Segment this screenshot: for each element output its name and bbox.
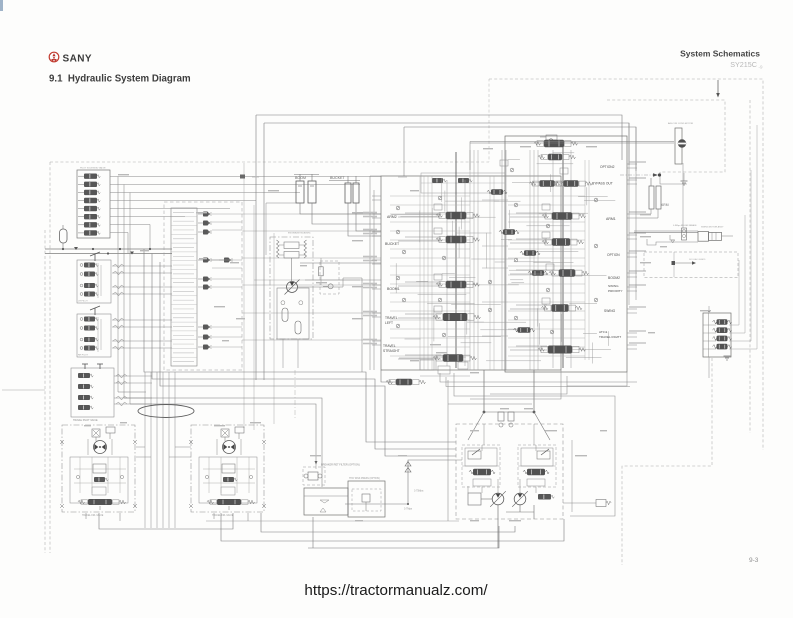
TRAVEL STRAIGHT spool [436,355,443,361]
ARM2 spool [439,213,446,219]
svg-text:9-3: 9-3 [749,557,759,564]
left dashed boundary [50,161,112,163]
svg-text:BUCKET: BUCKET [330,176,345,180]
right routing verticals [628,123,630,305]
port stubs left side [372,195,381,197]
left vertical routing bundle [117,177,119,393]
svg-text:SY215C: SY215C [730,60,757,69]
travel motor right [191,425,264,512]
svg-text:ENGINE(MITSUBISHI): ENGINE(MITSUBISHI) [288,233,311,235]
extra pilot hose [305,279,381,281]
solenoid valve SV7 [84,222,97,227]
solenoid block output wires [110,176,381,178]
svg-text:SWING: SWING [604,309,616,313]
svg-text:TRAVEL: TRAVEL [385,316,398,320]
spool column feed lines [446,180,448,366]
solenoid valve SV2 [84,182,97,187]
travel pilot valve group [71,368,114,417]
left joystick wires [112,265,172,267]
coupler on long pilot line [240,175,245,179]
OPTION2 spool lower [541,155,548,160]
main pump assembly (dashed enclosure) [456,424,563,519]
pump regulator right (dashed) [518,445,556,487]
pump case line right [571,440,573,512]
outer dashed boundary top [489,79,763,450]
quick couplers [203,212,208,217]
remote control line manifold (dashed enclosure) [164,202,242,370]
tiny label smudges [196,212,207,213]
svg-text:BOOM2: BOOM2 [608,276,620,280]
port micro-labels right of rows [629,161,646,163]
swing park brake dashed box [644,252,738,278]
solenoid valve SV6 [84,214,97,219]
solenoid valve SV4 [84,198,97,203]
auxiliary small spools [499,230,503,234]
fan motor circle [678,140,686,148]
dashed boundary right staircase [622,358,712,565]
svg-text:SWING: SWING [608,284,619,288]
left joystick pilot valve group [77,260,111,303]
anti-drift stack top tee [708,306,710,313]
center swivel joint ellipse [138,405,194,418]
nested corner routing at block bottom right [470,370,561,399]
svg-text:TRAVEL FRL VALVE: TRAVEL FRL VALVE [212,514,234,517]
quick coupler extra [224,258,229,263]
BOOM1 spool [439,282,446,288]
page corner mark [0,0,3,11]
main pump P1 [492,493,504,505]
swing drop from filter tee [682,163,684,228]
svg-text:AT0 &: AT0 & [599,330,608,334]
svg-text:0.9Mpa RELIEF BRAKE: 0.9Mpa RELIEF BRAKE [673,224,697,227]
BYPASS CUT valves [533,181,540,186]
swing tank bracket [670,235,675,240]
breaker return filter (dashed box) [303,467,325,485]
external pilot relief valve right of pump [596,500,606,507]
pump regulator left (dashed) [462,445,500,487]
svg-text:OPTION2: OPTION2 [600,165,615,169]
fan motor feed line [470,141,674,143]
BUCKET spool [439,237,446,243]
pilot solenoid valve block [77,170,110,238]
svg-text:STRAIGHT: STRAIGHT [383,349,400,353]
svg-text:LH PILOT: LH PILOT [78,301,88,303]
pump inline relief valves [498,412,504,421]
svg-text:BUCKET: BUCKET [385,242,400,246]
svg-text:TRAVEL PILOT VALVE: TRAVEL PILOT VALVE [73,419,98,422]
pump discharge junction dots [483,411,486,414]
svg-text:0.7Mpa: 0.7Mpa [404,508,413,511]
valve internal short wires [494,200,521,202]
travel motor left [62,425,135,512]
TRAVEL RIGHT spool [541,346,548,352]
pump internal feed lines [483,424,485,445]
pilot relief valve [319,267,324,276]
main relief valve bottom of block [389,380,396,385]
wire drop from solenoid outputs [127,233,129,254]
main gallery dark verticals [455,152,457,368]
tank breather box [348,481,385,517]
riser stubs into travel motors [136,446,145,448]
pilot filter circle [328,284,333,289]
svg-text:SANY: SANY [63,54,92,65]
pump pilot relief [538,494,551,500]
swing priority link lines [399,357,436,359]
pilot pump drive shaft [291,258,293,281]
routing bus top (to right side) [256,115,622,160]
travel box bottom stubs [119,513,121,521]
solenoid valve SV1 [84,174,97,179]
junction check node [658,173,661,176]
ARM1 spool [545,213,552,219]
anti-drift internal wires [703,324,716,326]
bus junction fittings [74,247,78,250]
svg-text:https://tractormanualz.com/: https://tractormanualz.com/ [304,582,488,599]
swing output line [722,235,734,237]
pilot pump unit (dash-dot enclosure) [270,237,313,339]
svg-text:SWING MOTOR ASSY: SWING MOTOR ASSY [701,226,724,229]
park brake pilot line [672,261,676,265]
right joystick pilot valve group [77,314,111,357]
SANY logo [49,52,59,62]
tank drop line [312,517,314,548]
svg-text:RH PILOT: RH PILOT [78,355,89,357]
center gallery between sections [489,176,491,370]
pilot pump output lines [298,286,344,288]
anti-drift output bends going up [729,260,739,325]
svg-text:BOOM: BOOM [295,176,306,180]
main control valve outline left section [381,176,561,370]
anti-drift stack drain [708,357,710,378]
solenoid valve SV5 [84,206,97,211]
accumulator [60,229,68,243]
pilot hoses from manifold to control valve [242,213,381,215]
block bottom wrap lines to right side [440,373,637,382]
travel pilot wires [114,375,152,377]
svg-text:AIR-CON COND MOTOR: AIR-CON COND MOTOR [668,122,693,125]
svg-text:0.75Mpa: 0.75Mpa [414,490,424,493]
svg-text:ARM2: ARM2 [387,215,397,219]
svg-text:TRAVEL: TRAVEL [383,344,396,348]
engine coupling hubs [284,242,299,249]
swing motor body [698,232,709,242]
svg-text:BYPASS OUT: BYPASS OUT [592,182,613,186]
check valves and fittings inside block [396,206,400,210]
inlet section box [421,173,505,193]
svg-text:ARM: ARM [661,203,669,207]
travel motor return routing [99,513,233,529]
pump discharge risers [483,370,485,412]
tank outlet line with check valve [345,460,456,504]
svg-text:BREAKER RET FILTER (OPTION): BREAKER RET FILTER (OPTION) [321,464,360,467]
staircase routing to main pump [144,249,456,442]
swing outline step [647,239,698,245]
left edge stub line [2,389,45,391]
vertical feed to pilot pump group [255,115,257,380]
inner dashed boundary top-right [607,100,725,172]
valve internal horizontal row lines [390,195,470,197]
main control valve outline right section [505,136,627,372]
SWING spool [545,305,552,311]
solenoid valve SV8 [84,230,97,235]
svg-text:OPTION: OPTION [607,253,620,257]
OPTION spool [545,239,552,245]
pilot pump drain lines down [282,339,284,368]
bottom cluster boxes in block [420,360,434,370]
small pilot boxes inside block [434,204,442,210]
pilot supply bus lines [45,248,172,250]
arm cylinder [649,186,654,209]
solenoid valve SV3 [84,190,97,195]
swing feed double line [634,230,698,232]
svg-text:BOOM1: BOOM1 [387,287,400,291]
svg-text:PRIORITY: PRIORITY [608,289,623,293]
svg-text:TRAVEL FRL VALVE: TRAVEL FRL VALVE [82,514,104,517]
right joystick wires [112,319,172,321]
long return hose [300,262,381,264]
pilot pump lower box [277,288,309,339]
bucket cylinder hoses [348,203,381,236]
pump drain lines [497,505,499,548]
tank symbol right [681,180,688,182]
pilot relief dashed sub-box [320,261,339,294]
engine coupling right hatch [304,240,307,258]
pilot pump [287,282,298,293]
BOOM2 spool [552,270,559,276]
hydraulic tank [304,488,348,515]
svg-text:ARM1: ARM1 [606,217,616,221]
valve internal vertical gallery lines [419,176,421,370]
svg-text:System Schematics: System Schematics [680,49,760,59]
svg-text:9.1 Hydraulic System Diagram: 9.1 Hydraulic System Diagram [49,74,191,85]
svg-text:-9: -9 [759,65,763,70]
manifold output wires [212,213,242,215]
routing to tank area [130,404,316,461]
main pump P2 [514,493,526,505]
engine coupling left hatch [277,240,280,258]
boom cylinder hoses [300,203,381,214]
spool row port double lines [405,212,441,214]
solid jog near fan motor [660,172,687,184]
port micro-labels left of rows [363,212,377,214]
pump supply feed lines left of block [369,176,371,370]
remote control line list box [171,208,197,366]
arm cylinder hoses [637,209,651,214]
TRAVEL LEFT spool [436,314,443,320]
svg-text:PILOT SOLENOID VALVE: PILOT SOLENOID VALVE [80,167,106,170]
vertical routing lines mid [243,163,245,428]
swing relief valve column [682,228,687,240]
OPTION2 spool upper [537,141,544,147]
pump pto box [468,493,481,505]
svg-text:LEFT: LEFT [385,321,393,325]
pilot-pressure arrow into boundary [717,80,719,94]
port stubs right side [627,163,637,165]
anti-drift valve stack [703,313,731,357]
center swivel riser lines [144,372,146,528]
svg-text:TRAVEL RIGHT: TRAVEL RIGHT [599,335,621,339]
straight travel pilot valve (small, at block top) [549,139,553,143]
swing gearbox [709,232,722,240]
return filter body [675,128,682,164]
svg-text:HYD TANK PRESS (OPTION): HYD TANK PRESS (OPTION) [349,477,380,480]
svg-text:NO LEAK GUARD: NO LEAK GUARD [689,258,706,261]
